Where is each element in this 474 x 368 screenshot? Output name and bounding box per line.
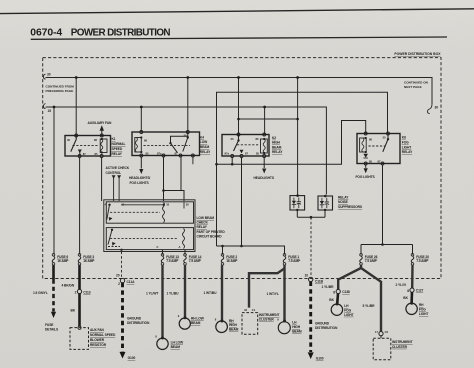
svg-text:16 AMP: 16 AMP [226,259,238,263]
relay K1 switch contact arrow [78,150,82,154]
check relay lower coil [183,229,185,249]
svg-text:FOG: FOG [344,308,351,312]
connector C11A at box edge [120,278,124,282]
wire ground distribution left (heavy dashed) [121,283,124,352]
svg-text:LIGHT: LIGHT [344,313,353,317]
svg-text:RH: RH [229,319,234,323]
relay K2 pin 85 terminal [263,155,266,158]
wire relay2 coil feed from line15 [140,107,142,132]
svg-text:C11B: C11B [315,279,324,283]
svg-text:K1: K1 [112,137,116,141]
svg-text:85: 85 [146,151,149,155]
wire BK to RH fog light [410,292,413,303]
node dot fog bus/H2 [215,163,218,166]
check relay upper pin30 lead [183,202,185,209]
svg-text:86: 86 [94,138,97,142]
lamp LH FOG LIGHT [331,304,342,315]
relay K2 pin 87a terminal [231,155,234,158]
relay K6 pin 85 terminal [364,162,367,165]
svg-text:C11A: C11A [127,280,136,284]
svg-text:C1: C1 [252,308,256,312]
svg-text:NORMAL: NORMAL [112,142,126,146]
wire BK to LH fog light [336,294,339,304]
svg-text:FUSE 6: FUSE 6 [57,255,68,259]
svg-text:BEAM: BEAM [292,329,302,333]
svg-text:SPEED: SPEED [112,147,123,151]
svg-text:RELAY: RELAY [338,195,349,199]
relay K4 pin 87 terminal [179,154,182,157]
arrow to headlights [262,169,266,174]
svg-text:BEAM: BEAM [229,328,239,332]
suppressor 2 capacitor [326,198,328,202]
svg-text:FUSE 13: FUSE 13 [166,255,179,259]
relay K2 switch contact arrow [240,150,244,154]
wire K6 pin87 to fuse 26/20 feed [382,165,384,245]
wire suppressor1 drop [297,78,299,195]
relay K4 coil end dots [140,136,142,138]
relay K1 pin 30 terminal [75,134,78,137]
relay K1 pin 87 terminal [78,155,81,158]
relay K1 dashed midline [73,144,99,146]
wire K2 pin87a to fog coil bus [231,157,233,164]
svg-text:87: 87 [83,152,86,156]
relay K4 pin 86 terminal [140,131,143,134]
node dot K2/fuse feed [240,245,243,248]
svg-text:1 YL/BR: 1 YL/BR [322,285,335,289]
svg-text:86: 86 [144,138,147,142]
svg-text:87a: 87a [157,151,162,155]
svg-text:7.5 AMP: 7.5 AMP [365,259,378,263]
svg-text:BEAM: BEAM [191,321,201,325]
node dot fuse2 [221,245,224,248]
ground G100 left [120,352,126,359]
node dot line30/suppressor1 [296,76,299,79]
relay K2 pin 30 terminal [237,133,240,136]
wire relay1 pin30 drop [75,78,77,136]
suppressor terminal dots [296,194,299,197]
svg-text:AUXILIARY FAN: AUXILIARY FAN [88,121,113,125]
relay K6 pin 30 terminal [387,132,390,135]
connector C138 [336,289,340,293]
svg-text:85: 85 [256,152,259,156]
svg-text:LH: LH [344,304,349,308]
check relay upper dashed line [110,211,160,213]
wire 1.5 GN/YL (dashed heavy) [52,280,55,312]
relay K4 coil [135,138,142,153]
wire ground distribution right (heavy dashed) [309,282,312,352]
suppressor 1 capacitor [298,198,300,202]
suppressor 2 diode [320,201,324,205]
suppressor 1 body [290,196,305,210]
svg-text:G100: G100 [316,356,324,360]
svg-text:K2: K2 [272,136,276,140]
relay K1 body [65,136,111,157]
svg-text:LIGHT: LIGHT [402,145,411,149]
svg-text:FOG: FOG [402,140,409,144]
svg-text:FOG: FOG [419,308,426,312]
lamp LH HIGH BEAM [278,322,290,334]
svg-text:HEADLIGHTS: HEADLIGHTS [254,176,275,180]
relay K2 coil end dots [263,138,265,140]
svg-text:FUSE 14: FUSE 14 [189,255,202,259]
fuse 1 [283,254,286,257]
check relay upper switch [107,205,110,220]
svg-text:1 WT/YL: 1 WT/YL [267,292,279,296]
aux fan blower resistor terminal [78,326,81,329]
check relay lower section [106,228,193,250]
svg-text:86: 86 [256,137,259,141]
wire fuse26 lead [360,265,362,268]
lamp RH HIGH BEAM [216,321,228,333]
suppressor 1 diode [292,201,296,205]
svg-text:FUSE 26: FUSE 26 [365,255,378,259]
wire K2 pin87 to fuse row [241,157,243,246]
svg-text:86: 86 [369,137,372,141]
svg-text:C127: C127 [416,289,424,293]
power distribution box (dashed boundary) [43,58,441,279]
instrument cluster 1 body [242,313,258,335]
svg-text:SUPPRESSORS: SUPPRESSORS [338,205,363,209]
relay K1 pin 85 terminal [100,155,103,158]
svg-text:POWER DISTRIBUTION: POWER DISTRIBUTION [71,27,171,38]
svg-text:C138: C138 [342,290,350,294]
svg-text:HIGH: HIGH [229,323,238,327]
node dot fog bus/K2 [231,163,234,166]
relay K2 coil [261,139,268,153]
wire fog coil bus [217,121,366,165]
svg-text:LH: LH [292,321,297,325]
svg-text:FUSE 20: FUSE 20 [416,255,429,259]
wire fuse13 to LH low beam (1 YL/WT) [161,265,163,337]
node dot suppressor common [310,216,313,219]
relay K6 diode [363,154,368,158]
node dot line30/relay3 [237,76,240,79]
svg-text:87a: 87a [225,152,230,156]
svg-text:30: 30 [231,137,234,141]
lamp RH FOG LIGHT [406,303,417,314]
svg-text:4 BK/GN: 4 BK/GN [62,283,75,287]
svg-text:16 AMP: 16 AMP [83,259,95,263]
svg-text:ACTIVE CHECK: ACTIVE CHECK [106,166,130,170]
wire suppressor 2 bottom [324,210,326,217]
svg-text:RESISTOR: RESISTOR [90,343,107,347]
wire relay3 pin86 feed from line15 [264,107,266,135]
node dot line30/relay1 [75,76,78,79]
wire relay3 pin30 drop [238,78,240,135]
aux fan blower resistor body [70,328,89,350]
relay K2 switch dot [237,139,239,141]
svg-text:CIRCUIT BOARD: CIRCUIT BOARD [197,234,223,238]
relay K1 switch [71,136,76,152]
svg-text:HIGH: HIGH [272,141,281,145]
node 15 entry hook [43,104,45,109]
svg-text:INSTRUMENT: INSTRUMENT [392,340,413,344]
svg-text:LIGHT: LIGHT [419,312,428,316]
svg-text:FOG LIGHTS: FOG LIGHTS [130,181,150,185]
wire 1 YL/BR branch to LH fog [338,268,361,289]
svg-text:BEAM: BEAM [272,145,282,149]
relay K2 switch [234,141,239,152]
svg-text:1 YL/BU: 1 YL/BU [167,291,180,295]
lamp LH LOW BEAM [157,338,168,349]
svg-text:7.5 AMP: 7.5 AMP [166,259,179,263]
svg-text:FUSE 2: FUSE 2 [226,255,237,259]
svg-text:NEXT PAGE: NEXT PAGE [404,85,422,89]
svg-text:GROUND: GROUND [127,317,142,321]
check relay upper link [121,204,162,206]
wire fuse3 to C113 (4 BK/GN) [78,265,81,289]
wire suppressor common [297,216,325,218]
svg-text:GROUND: GROUND [315,322,330,326]
svg-text:HIGH: HIGH [292,325,301,329]
wire line 15 [46,107,327,195]
wire fuse6 heavy lead [52,265,55,279]
relay K1 coil end dots [101,138,103,140]
fuse 13 [161,254,164,257]
relay K6 pin 86 terminal [364,132,367,135]
arrow to fog lights [364,168,368,173]
node dot line15/fuse6 [53,106,56,109]
connector C113 [77,289,81,293]
wire K2 pin85 to headlights arrow [263,157,265,168]
instrument cluster 2 body [380,336,382,339]
wire fuse14 to RH low beam (1 YL/BU) [184,265,186,317]
svg-text:1 WT/BU: 1 WT/BU [204,291,218,295]
relay K6 coil end dots [365,137,367,139]
wire line 30 [46,78,433,105]
wire K1 pin85 to check relay pin 4 [101,158,103,202]
svg-text:RELAY: RELAY [402,150,413,154]
svg-text:5 YL/BR: 5 YL/BR [363,304,376,308]
connector C127 [410,288,414,292]
suppressor 2 body [318,196,333,210]
fuse 20 [411,254,414,257]
wire K4 pin87 to check relay pin30 [181,157,184,201]
svg-text:CONTINUED ON: CONTINUED ON [404,80,429,84]
svg-text:87: 87 [378,159,381,163]
svg-text:FOG LIGHTS: FOG LIGHTS [356,175,376,179]
wire check relay pin A to fuse 14 [184,250,186,255]
relay K1 coil [100,139,107,153]
svg-text:DISTRIBUTION: DISTRIBUTION [315,326,338,330]
relay K4 pin 87a terminal [162,154,165,157]
svg-text:RH: RH [419,303,424,307]
relay K2 dashed midline [237,144,259,146]
check relay switch dots [108,204,110,206]
node dot K6/fuse feed [381,243,384,246]
arrow to active check control B [117,175,121,179]
svg-text:POWER DISTRIBUTION BOX: POWER DISTRIBUTION BOX [394,52,441,56]
svg-text:7.5 AMP: 7.5 AMP [288,259,301,263]
node dot line30/relay2 [186,76,189,79]
svg-text:16 AMP: 16 AMP [57,259,69,263]
svg-text:BK: BK [329,298,334,302]
svg-text:NORMAL SPEED: NORMAL SPEED [90,333,116,337]
svg-text:LOW BEAM: LOW BEAM [197,216,215,220]
relay K6 switch dot [387,138,389,140]
svg-text:17: 17 [375,330,378,334]
wire K4 pin87b stub [192,157,194,164]
svg-text:LH LOW: LH LOW [171,340,184,344]
wire H2 feed to fog relay [217,92,388,246]
node dot line15/relay3 [263,106,266,109]
svg-text:30: 30 [47,73,51,77]
title rule [31,37,447,39]
svg-text:30: 30 [383,136,386,140]
arrow to active check control A [112,175,116,179]
svg-text:PRECEDING PAGE: PRECEDING PAGE [46,89,74,93]
svg-text:DETAILS: DETAILS [45,327,59,331]
svg-text:BK: BK [71,309,76,313]
check relay upper section [106,202,193,223]
svg-text:30: 30 [186,203,189,207]
relay K1 pin 86 terminal [100,134,103,137]
svg-text:8: 8 [333,290,335,294]
wire feed fuse2/fuse1 [217,246,285,255]
svg-text:G100: G100 [128,356,136,360]
svg-text:INSTRUMENT: INSTRUMENT [259,313,280,317]
svg-text:10: 10 [305,273,309,277]
svg-text:C2: C2 [385,330,389,334]
connector C2 [379,332,383,336]
wire K1 pin86 to auxiliary fan [101,131,103,136]
node 30 exit hook [428,104,433,114]
check relay upper coil [163,203,165,223]
svg-text:K4: K4 [200,135,204,139]
svg-text:BEAM: BEAM [200,145,210,149]
svg-text:87: 87 [175,151,178,155]
wire suppressor 1 bottom [296,210,298,217]
connector C11B at box edge [309,277,313,281]
svg-text:2: 2 [118,282,120,286]
relay K4 switch dots [169,142,171,144]
svg-text:2 YL/VI: 2 YL/VI [396,283,406,287]
svg-text:FUSE 3: FUSE 3 [83,255,94,259]
wire fuse2 stub [222,246,224,255]
svg-text:8: 8 [407,289,409,293]
svg-text:PART OF PRINTED: PART OF PRINTED [197,230,226,234]
svg-text:BLOWER: BLOWER [90,338,105,342]
top scan line [0,9,474,14]
svg-text:FUSE 1: FUSE 1 [288,255,299,259]
svg-text:RH LOW: RH LOW [191,316,205,320]
svg-text:1 YL/WT: 1 YL/WT [146,291,158,295]
svg-text:10: 10 [166,203,169,207]
relay K2 pin 87 terminal [240,155,243,158]
svg-text:LOW: LOW [200,140,208,144]
fuse 14 [184,254,187,257]
check relay outer boundary [104,200,195,252]
svg-text:7.5 AMP: 7.5 AMP [416,259,429,263]
svg-text:CONTINUED FROM: CONTINUED FROM [46,85,75,89]
svg-text:30: 30 [184,133,187,137]
relay K6 body [357,134,400,164]
relay K4 dashed midline [144,145,191,147]
fuse 6 [52,254,55,257]
svg-text:A: A [179,245,181,249]
wire check relay to active check control A [113,178,115,201]
svg-text:C: C [157,245,159,249]
fuse 2 [221,254,224,257]
check relay lower switch [108,230,112,245]
svg-text:RELAY: RELAY [197,225,208,229]
svg-text:30: 30 [67,138,70,142]
wire fuse2 to RH high beam (1 WT/BU) [221,265,223,320]
node dot link [162,189,165,192]
ground G100 right [308,352,314,359]
svg-text:87: 87 [245,152,248,156]
svg-text:NOISE: NOISE [338,200,349,204]
wire relay2 pin30 drop [187,78,189,133]
svg-text:K6: K6 [402,136,406,140]
wire link line30 to suppressor1 [239,118,298,120]
relay K2 pin 86 terminal [263,133,266,136]
wire K4 pin87a to check relay pin10 [163,157,165,201]
arrow to fuse details [51,312,56,318]
wire fuse20 to C127 (2 YL/VI) [411,265,414,288]
svg-text:15: 15 [48,109,52,113]
svg-text:CLUSTER: CLUSTER [392,345,408,349]
check relay pin2 dot [120,249,122,251]
svg-text:CLUSTER: CLUSTER [259,318,275,322]
fuse 3 [78,254,81,257]
wire K1 pin87 to fuse 3 [79,158,81,255]
relay K4 pin 30 terminal [186,131,189,134]
wire K6 pin85 to fog lights arrow [365,165,367,168]
node dot H119 left [237,118,240,121]
node 30 entry hook [43,74,45,79]
wire suppressor ground drop (dashed) [310,217,312,277]
svg-text:RELAY: RELAY [200,150,211,154]
svg-text:DISTRIBUTION: DISTRIBUTION [127,321,150,325]
svg-text:HEADLIGHTS/: HEADLIGHTS/ [129,176,150,180]
relay K6 dashed midline [369,145,386,147]
svg-text:43: 43 [244,308,247,312]
svg-text:CHECK: CHECK [197,221,209,225]
svg-text:7.5 AMP: 7.5 AMP [189,259,202,263]
relay K6 pin 87 terminal [381,162,384,165]
svg-text:BK: BK [403,296,408,300]
svg-text:CONTROL: CONTROL [106,171,122,175]
svg-text:85: 85 [95,152,98,156]
wire fuse1 branch to instrument cluster [249,268,285,307]
svg-text:C113: C113 [83,290,91,294]
svg-text:2: 2 [75,290,77,294]
fuse 26 [360,254,363,257]
relay K6 coil [360,138,367,152]
wire K4 pin85 to headlights arrow [140,157,142,169]
relay K2 body [222,135,269,157]
svg-text:FUSE: FUSE [45,323,54,327]
svg-text:85: 85 [369,159,372,163]
wire link at node 190.5 [164,190,182,192]
svg-text:0670-4: 0670-4 [30,27,62,38]
svg-text:AUX FAN: AUX FAN [90,328,104,332]
svg-text:BEAM: BEAM [171,345,181,349]
svg-text:RELAY: RELAY [272,150,283,154]
wire fuse6 feed from line15 [53,107,55,255]
check relay lower dashed line [110,238,178,240]
relay K6 switch [383,139,388,152]
relay K4 body [132,132,200,156]
node dot H119 right [296,118,299,121]
wire check relay pin C to fuse 13 [162,250,164,255]
svg-text:20: 20 [116,274,120,278]
wire feed fuse26/fuse20 [361,244,413,246]
relay K4 pin 87b terminal [191,154,194,157]
wire BK to blower resistor [78,294,81,327]
relay K4 pin 85 terminal [140,154,143,157]
